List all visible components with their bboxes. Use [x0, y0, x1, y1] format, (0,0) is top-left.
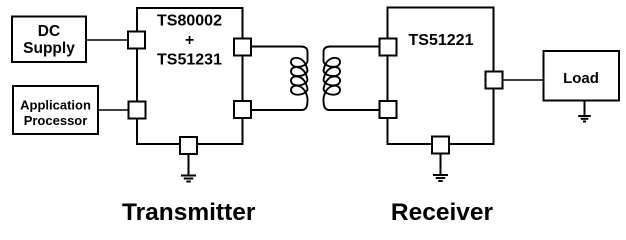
- svg-text:+: +: [185, 32, 194, 49]
- svg-text:TS51221: TS51221: [409, 32, 474, 49]
- svg-text:Supply: Supply: [23, 40, 75, 57]
- svg-text:Load: Load: [563, 70, 599, 87]
- svg-text:Processor: Processor: [24, 113, 88, 128]
- svg-text:Receiver: Receiver: [391, 199, 494, 226]
- svg-text:Application: Application: [20, 97, 91, 112]
- svg-text:Transmitter: Transmitter: [122, 199, 256, 226]
- svg-text:TS80002: TS80002: [157, 13, 222, 30]
- svg-text:DC: DC: [38, 23, 60, 40]
- svg-text:TS51231: TS51231: [157, 51, 222, 68]
